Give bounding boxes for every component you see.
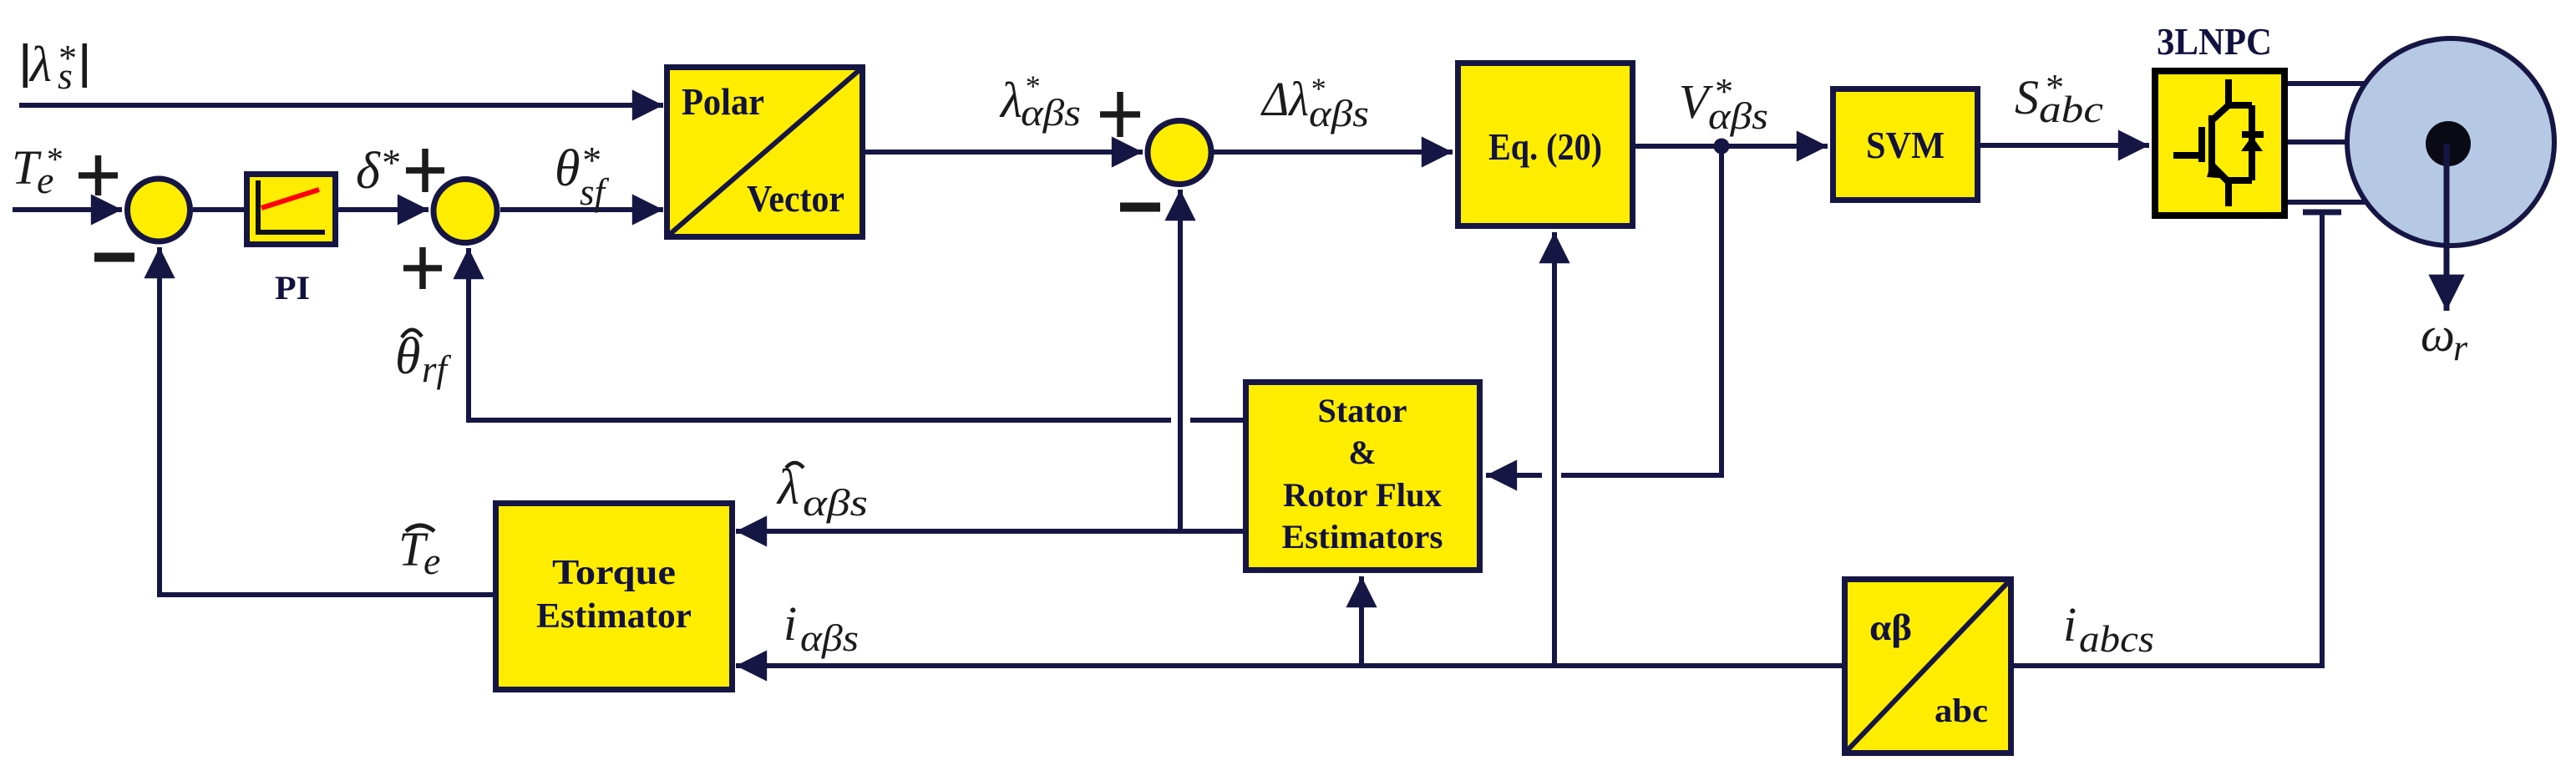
- node Te* label: [12, 140, 62, 201]
- wire branch lambda_abs hat up into S3: [1178, 190, 1183, 529]
- svg-text:ω: ω: [2421, 307, 2455, 362]
- svg-text:λ: λ: [28, 37, 52, 92]
- svg-text:SVM: SVM: [1866, 124, 1945, 166]
- transistor IGBT inside 3LNPC: [2173, 79, 2252, 206]
- svg-text:αβs: αβs: [803, 481, 868, 524]
- block Eq.(20): [1458, 63, 1633, 226]
- svg-text:δ: δ: [356, 143, 381, 200]
- block PI: [247, 175, 336, 245]
- block Polar/Vector: [667, 68, 863, 237]
- node theta_rf hat label: [395, 328, 452, 390]
- svg-text:sf: sf: [580, 171, 610, 213]
- svg-text:αβs: αβs: [800, 616, 859, 659]
- wire i_alphabeta from transform to Torque Estimator: [736, 663, 1842, 668]
- block 3LNPC inverter: [2155, 71, 2284, 216]
- plus sign lower at S2: [403, 247, 442, 289]
- block alpha-beta / abc transform: [1845, 580, 2011, 753]
- node i_abcs label: [2063, 597, 2154, 660]
- wire Polar/Vector to summing junction S3: [865, 150, 1143, 155]
- svg-text:Rotor Flux: Rotor Flux: [1283, 476, 1442, 514]
- svg-text:PI: PI: [275, 269, 310, 307]
- svg-text:&: &: [1348, 434, 1376, 471]
- wire SVM to 3LNPC: [1980, 143, 2149, 148]
- svg-text:Estimators: Estimators: [1282, 518, 1443, 555]
- svg-text:e: e: [423, 540, 440, 582]
- node lambda_abs* label: [999, 69, 1081, 134]
- node i_alphabeta label: [783, 596, 859, 659]
- node theta_sf* label: [555, 139, 610, 213]
- svg-text:Torque: Torque: [552, 554, 676, 592]
- wire omega_r output arrow: [2444, 144, 2450, 311]
- wire i_abcs sensor down and left into ab/abc block: [2014, 214, 2322, 666]
- current sensor tap bar: [2303, 210, 2341, 216]
- svg-text:abcs: abcs: [2079, 617, 2154, 660]
- svg-text:*: *: [380, 141, 399, 184]
- summing junction S3: [1148, 121, 1211, 185]
- node delta-lambda_abs* label: [1260, 72, 1369, 134]
- node S_abc* label: [2015, 67, 2103, 130]
- svg-text:θ: θ: [555, 140, 580, 197]
- minus sign at S1: [94, 253, 134, 262]
- wire 3LNPC phase a to motor: [2288, 81, 2366, 86]
- node Te hat label: [398, 522, 440, 582]
- svg-text:3LNPC: 3LNPC: [2157, 20, 2272, 63]
- summing junction S2: [434, 180, 497, 243]
- wire V_abs* feedback down into Stator estimator: [1561, 150, 1722, 475]
- wire S3 to Eq.(20): [1214, 150, 1453, 155]
- minus sign at S3: [1120, 203, 1160, 212]
- svg-text:S: S: [2015, 70, 2039, 124]
- svg-text:i: i: [2063, 597, 2077, 652]
- node delta* label: [356, 141, 399, 200]
- svg-text:i: i: [783, 596, 797, 651]
- block Torque Estimator: [496, 504, 733, 690]
- node omega_r label: [2421, 307, 2468, 368]
- svg-text:αβs: αβs: [1708, 94, 1768, 137]
- svg-text:Eq. (20): Eq. (20): [1488, 125, 1602, 168]
- svg-text:e: e: [37, 159, 53, 201]
- plus sign upper at S2: [406, 149, 444, 192]
- wire Te* input into summing junction S1: [13, 207, 122, 212]
- svg-text:Stator: Stator: [1318, 392, 1407, 429]
- wire branch up into Eq.(20): [1552, 232, 1557, 666]
- wire theta_rf feedback from Stator estimator to S2: [1190, 418, 1243, 423]
- svg-text:r: r: [2453, 327, 2468, 368]
- wire theta_sf* from S2 into Polar/Vector: [500, 207, 663, 212]
- svg-text:Estimator: Estimator: [536, 597, 692, 636]
- node lambda_abs hat label: [776, 459, 868, 524]
- plus sign at S1: [79, 155, 118, 195]
- wire Eq.(20) to SVM: [1635, 144, 1828, 149]
- wire 3LNPC phase c to motor: [2288, 200, 2367, 205]
- svg-text:αβs: αβs: [1021, 91, 1081, 134]
- wire 3LNPC phase b to motor: [2288, 139, 2349, 145]
- transistor emitter arrow: [2207, 160, 2230, 179]
- wire lambda_abs hat from Stator estimator to Torque Estimator: [736, 529, 1243, 534]
- svg-text:Δλ: Δλ: [1260, 72, 1309, 126]
- wire S1 to PI: [193, 207, 246, 212]
- wire branch up into Stator estimator: [1359, 576, 1364, 666]
- svg-text:s: s: [58, 54, 73, 97]
- wire PI to summing junction S2: [338, 207, 428, 212]
- svg-text:λ: λ: [999, 73, 1022, 128]
- block SVM: [1833, 89, 1978, 200]
- node V_abs* label: [1679, 71, 1768, 137]
- svg-text:Vector: Vector: [747, 177, 844, 220]
- wire Te hat feedback from Torque Estimator to S1: [160, 247, 493, 595]
- svg-text:Polar: Polar: [682, 80, 764, 123]
- diode D1 inside 3LNPC: [2242, 105, 2264, 180]
- block Stator and Rotor Flux Estimators: [1246, 383, 1480, 571]
- node |lambda_s*| label: [23, 37, 88, 97]
- svg-text:rf: rf: [422, 348, 452, 390]
- svg-text:abc: abc: [2039, 88, 2103, 130]
- motor shaft dot: [2426, 121, 2471, 166]
- junction dot V_abs*: [1714, 139, 1730, 155]
- svg-text:θ: θ: [395, 328, 420, 385]
- plus sign at S3: [1100, 92, 1140, 137]
- wire lambda_s* reference into Polar/Vector: [19, 103, 663, 108]
- summing junction S1: [128, 179, 190, 241]
- svg-text:abc: abc: [1935, 692, 1988, 729]
- svg-text:αβ: αβ: [1869, 607, 1912, 648]
- motor M1: [2347, 38, 2554, 246]
- svg-text:αβs: αβs: [1309, 92, 1369, 134]
